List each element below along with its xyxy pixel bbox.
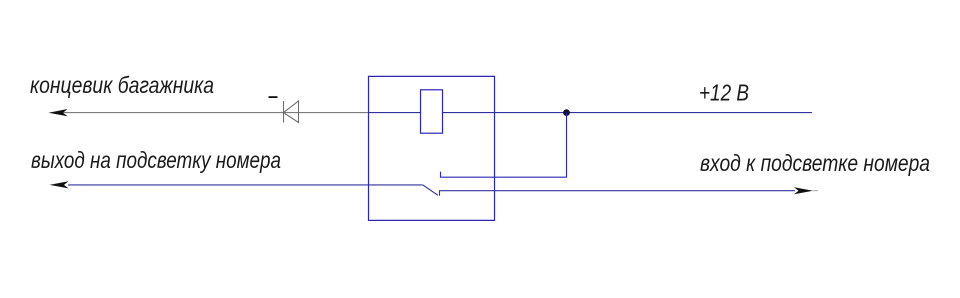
wire: faint tail beyond right arrowhead xyxy=(813,190,818,192)
arrowhead: left end of trunk-switch wire xyxy=(49,109,68,116)
wire: common contact out to license-plate lamp (blue) xyxy=(68,184,423,186)
svg-text:+12 В: +12 В xyxy=(699,80,749,106)
relay K1 movable contact (blade) xyxy=(423,185,438,195)
wire: junction down to upper fixed contact xyxy=(441,113,567,178)
diode VD1 (cathode bar) xyxy=(283,101,285,123)
svg-text:концевик багажника: концевик багажника xyxy=(30,72,214,98)
wire: +12V supply (blue, through relay to right end) xyxy=(368,112,812,114)
svg-text:вход к подсветке номера: вход к подсветке номера xyxy=(700,150,930,176)
arrowhead: left end of lamp output wire xyxy=(50,181,69,188)
relay K1 (body outline) xyxy=(369,76,495,220)
diode VD1 (anode triangle) xyxy=(284,101,299,123)
svg-text:выход на подсветку номера: выход на подсветку номера xyxy=(31,147,281,173)
wire: trunk-switch input (gray, left segment to relay box) xyxy=(52,112,368,114)
relay K1 coil xyxy=(421,90,443,133)
arrowhead: right end of license-plate feed wire xyxy=(794,187,813,194)
wire: lower fixed contact to license-plate light feed xyxy=(440,191,796,196)
node: junction on +12V wire xyxy=(563,109,570,116)
label: minus polarity mark xyxy=(269,96,278,98)
